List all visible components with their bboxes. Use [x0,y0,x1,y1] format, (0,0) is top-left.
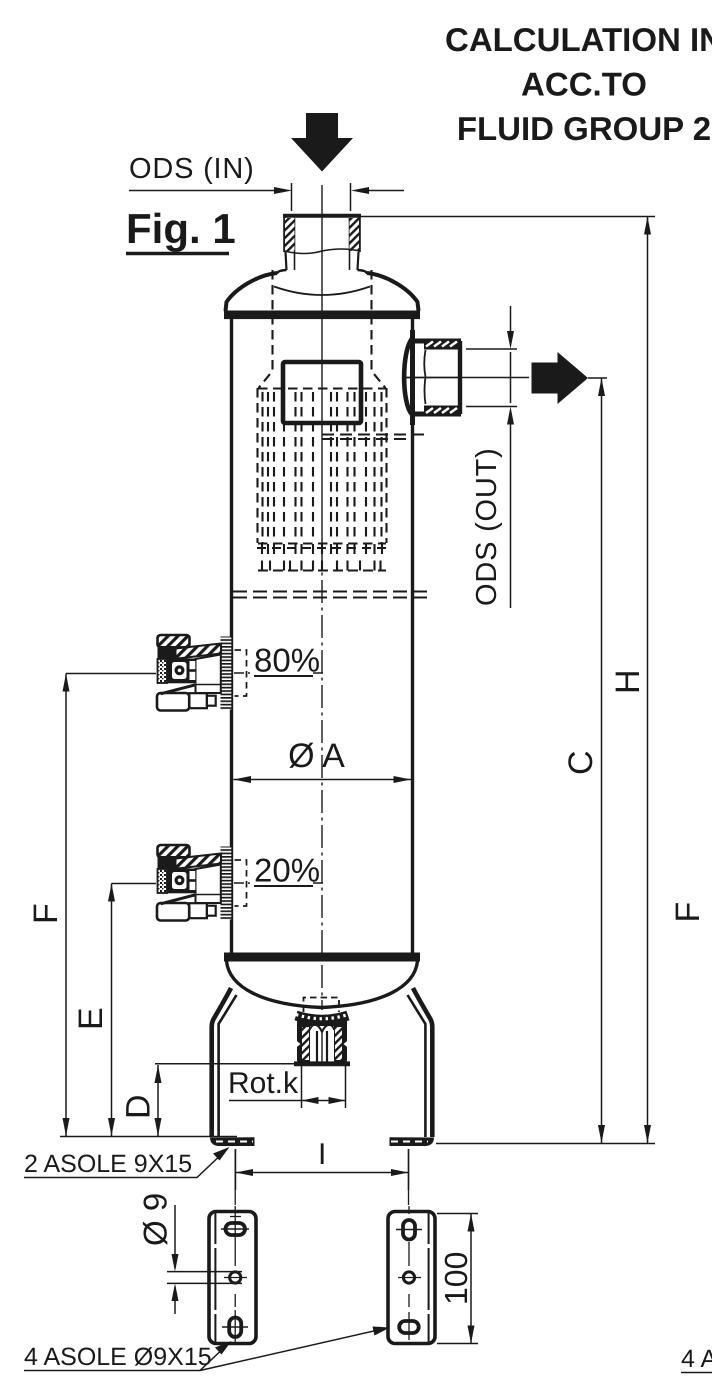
dimension D [120,1065,162,1136]
svg-text:D: D [120,1094,158,1119]
title text CALCULATION IN ACC.TO FLUID GROUP 2 [445,21,712,147]
bottom dome [227,961,418,1008]
svg-text:ODS (OUT): ODS (OUT) [471,447,503,606]
outlet fitting [403,339,461,416]
dimension Rot.k [155,1064,346,1108]
top fitting [277,216,367,274]
label Fig. 1 [126,205,236,254]
internal dip tube (dashed) [259,270,386,388]
svg-text:Rot.k: Rot.k [228,1067,299,1100]
outlet level dashed lines [322,435,429,440]
basket bottom comb [257,544,387,571]
top weld band [224,311,420,320]
dimension H [360,217,655,1144]
svg-text:Fig. 1: Fig. 1 [126,205,236,252]
drain plug [294,998,350,1067]
label 80% [234,642,326,697]
svg-text:E: E [72,1007,110,1030]
left leg [210,988,255,1146]
bottom slot (vertical 9x15) [229,1318,241,1338]
dimension F left [27,674,156,1137]
label ODS (IN) [129,153,404,211]
left mounting bracket [209,1149,256,1344]
filter basket dashed outline [258,388,387,544]
svg-text:100: 100 [438,1252,474,1305]
right mounting bracket [388,1149,435,1344]
sight glass 20% fitting [157,845,231,921]
middle hole [403,1272,414,1283]
label 4 A... (second figure, cut off) [681,1345,712,1373]
svg-text:ODS (IN): ODS (IN) [129,153,255,185]
svg-text:F: F [669,902,707,923]
dimension E [72,884,156,1137]
shell walls [232,319,413,953]
label 20% [234,852,326,907]
svg-text:I: I [318,1138,326,1171]
middle hole [230,1272,241,1283]
svg-text:F: F [27,903,65,924]
dimension 100 [437,1214,478,1344]
dimension diameter 9 [137,1193,243,1314]
label 4 ASOLE 9X15 with leaders [24,1327,390,1372]
bottom slot (horizontal 9x15) [399,1321,419,1333]
top slot (vertical 9x15) [403,1220,415,1240]
left dimension baseline [60,1136,237,1138]
outlet dimension ticks [462,306,529,608]
top slot (horizontal 9x15) [226,1223,246,1235]
sight glass 80% fitting [157,635,231,711]
liquid level dashed lines [233,592,429,598]
dimension diameter A [234,737,412,783]
outlet flow arrow [532,352,589,404]
svg-text:Ø 9: Ø 9 [137,1193,174,1246]
svg-text:80%: 80% [254,642,320,679]
vertical centerline of vessel [321,185,323,1058]
dimension I [236,1138,409,1190]
svg-text:20%: 20% [254,852,320,889]
bottom weld band [224,953,420,962]
svg-text:4 ASOLE: 4 ASOLE [681,1345,712,1373]
svg-text:Ø A: Ø A [288,737,345,775]
svg-text:2 ASOLE 9X15: 2 ASOLE 9X15 [24,1150,192,1178]
solid block U1 [283,362,361,423]
svg-text:FLUID GROUP 2: FLUID GROUP 2 [457,110,711,147]
dimension C [562,378,607,1143]
outlet boss weld collar [404,330,412,425]
svg-text:4 ASOLE Ø9X15: 4 ASOLE Ø9X15 [24,1343,212,1371]
svg-text:ACC.TO: ACC.TO [521,66,647,103]
svg-text:H: H [609,669,647,694]
right leg [390,988,435,1146]
top dome [226,273,419,311]
inlet flow arrow [291,113,353,172]
svg-text:C: C [562,750,600,775]
label 2 ASOLE 9X15 with leader [24,1147,230,1178]
svg-text:CALCULATION IN: CALCULATION IN [445,21,712,58]
